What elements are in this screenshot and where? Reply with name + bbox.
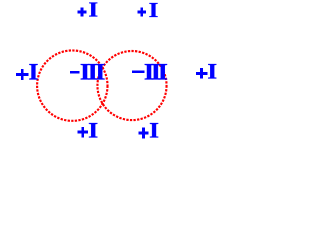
svg-text:I: I — [88, 118, 98, 143]
svg-text:III: III — [144, 60, 167, 85]
svg-text:I: I — [29, 60, 39, 86]
svg-text:I: I — [149, 0, 159, 22]
svg-text:I: I — [149, 119, 159, 143]
svg-text:I: I — [207, 60, 217, 85]
svg-text:I: I — [88, 0, 98, 22]
svg-text:III: III — [80, 60, 105, 85]
